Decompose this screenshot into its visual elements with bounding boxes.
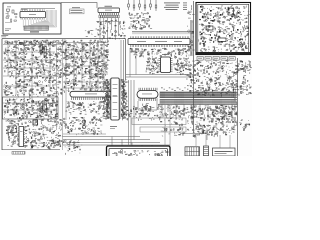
resistor bank R301-R306 (hanging from top edge) [128,0,157,11]
net name boxes (AV inputs) [197,57,235,61]
text row right of comb [160,105,190,118]
RC cluster below U601 [66,101,109,115]
vertical-output cluster [63,116,102,135]
value label: below inset box [1,35,8,37]
connector CN801 (grid box) [185,147,200,156]
value label below U201 [110,126,117,129]
power-supply module box (double border) [196,3,251,55]
wire: bottom-left border [2,149,60,151]
wire: feeds above CRT board [63,133,106,135]
wire: U101 top pin drops [21,9,44,10]
wire: bottom-right link [180,134,207,141]
wire: nested routing loom (IC to connector) [23,10,56,27]
resistor row under main frame top border [5,41,60,44]
pin number labels above bus [161,88,236,91]
voltage table text block [164,3,187,10]
tuner AGC cluster [128,12,152,30]
op-amp U101 (tuner IC, DIP-30) [20,10,46,20]
wire: bottom-centre loop A [132,118,186,125]
transistor Q402 [82,120,85,123]
resistor-capacitor cluster below U801 [96,20,125,41]
value label: inset bottom-left text [5,9,27,30]
ground symbols above main frame [85,30,96,37]
wire: inset top bus [21,8,55,10]
snubber cluster below U501 [138,103,163,115]
wire: left box vertical rails [8,39,63,150]
RC cluster below jungle IC [130,48,191,58]
pin number labels on U201 [113,88,118,117]
wire: right vertical bundle [191,20,193,56]
wire: centre vertical rails [121,40,124,90]
regulator cluster inside power box [4,98,58,120]
wire: right divider [237,58,239,156]
transformer T901 in module [228,8,234,15]
wire: vertical section divider [193,1,195,133]
rotated net labels on right divider [235,97,238,126]
+B sense cluster (far right) [239,119,250,131]
pull-up resistor column left of U201 [102,79,110,119]
wire: mid horizontal rails [126,75,193,78]
wire: left drop rails [129,80,135,146]
op-amp U801 (audio IC, SIP) [98,6,120,18]
wire: right-bottom verticals [165,105,230,148]
wire: drops below data comb [162,105,232,123]
RC cluster (centre mid) [63,79,109,93]
AV switching cluster [186,60,252,98]
wire: loop below U501 [138,101,157,110]
ground symbols right of CN601 [66,148,81,155]
op-amp U401 (vertical deflection IC) [18,127,25,147]
wire: IC801 output drops [96,18,121,40]
pin components flanking U201 [106,79,125,118]
connector CN601 strip [12,152,25,155]
RC cluster (left middle) [3,79,63,98]
capacitor C102 / resistor R102 group (inset left) [5,13,17,23]
RC row above bottom border [31,140,83,150]
filter cluster left of supply module [187,5,195,55]
CRT socket board (thick box) [107,146,171,160]
op-amp U301 (vertical IC) [159,54,173,73]
op-amp U501 (stadium module) [137,88,158,101]
degauss coil plug (wide box) [213,148,236,156]
wire junction frame: tuner/IF inset box [3,3,61,34]
diode bridge D901 [218,38,226,42]
pull-up resistor column right of U201 [121,79,129,120]
relay RL1 outline [8,126,17,133]
op-amp U901 in module [206,26,213,30]
signal-processing jungle (centre) [63,40,110,80]
deflection cluster (bottom-left) [6,119,63,148]
resistor-diode cluster in supply module [199,6,250,53]
choke L601 (striped) [40,103,46,112]
video output cluster below comb [127,106,161,121]
bus: upper data comb [160,92,237,99]
deflection drive cluster [159,117,236,138]
wire: drops from jungle IC left pins [130,48,142,77]
wire: centre vertical rails 2 [66,40,104,120]
node legend table box [70,7,85,14]
wire: CRT harness horizontals [63,137,170,146]
wire: main frame left border [1,39,3,150]
RC cluster beside U301 [146,57,159,74]
wire: bus above jungle IC [132,32,193,35]
wire: centre divider [125,39,127,80]
connector CN101 (hatched strip) [24,26,49,33]
RC cluster right of U301 [174,56,192,75]
wire: CRT harness verticals [112,137,152,147]
wire: main frame top border [2,38,126,40]
power sub-box border [3,97,59,119]
fuse F801 (ladder part) [204,146,209,156]
dark pads in supply module [200,6,241,45]
transistor Q403 [82,125,85,128]
wire: bottom-centre loop B [140,127,186,132]
east-west correction cluster [191,105,237,121]
op-amp U601 (chroma IC, SDIP horizontal) [70,91,114,100]
spark-gap cluster inside CRT board [112,150,168,158]
bus: lower data comb [160,99,237,105]
transformer T402 (vertical) [40,44,46,56]
wire: centre horizontal rails [63,43,108,89]
op-amp U102 (jungle IC, SDIP-64 horizontal) [128,36,190,47]
+B regulation cluster [192,121,236,135]
resistor-transistor jungle (left upper) [4,40,64,80]
wire: long top rail to IC801 [61,3,97,8]
wire: left box horizontal rails [3,45,62,111]
capacitor C101 / crystal X101 group [6,7,17,17]
transistor Q601 heatsink blob [33,120,38,125]
microcontroller U201 (vertical DIP-40) [109,78,121,120]
